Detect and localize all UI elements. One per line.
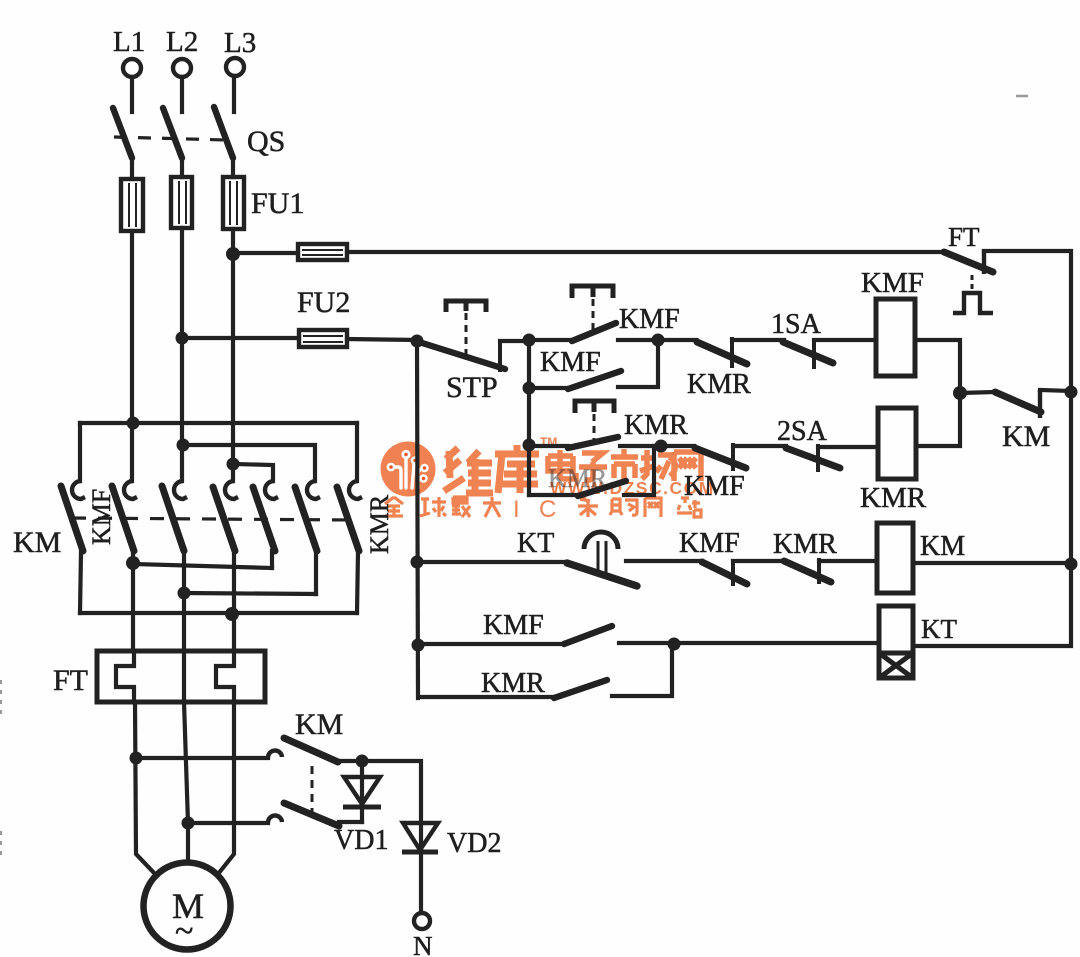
svg-text:KMF: KMF [619,304,680,335]
svg-text:KMR: KMR [860,482,927,514]
svg-text:KM: KM [1002,420,1050,453]
svg-text:FU2: FU2 [297,286,350,319]
svg-text:KMF: KMF [861,267,924,299]
svg-text:I: I [513,496,520,523]
svg-text:1SA: 1SA [771,309,822,340]
svg-text:KMF: KMF [87,489,116,545]
svg-text:KMR: KMR [624,410,688,441]
svg-text:FT: FT [53,664,88,697]
svg-text:L1: L1 [113,26,145,58]
svg-text:KMR: KMR [481,668,545,699]
svg-text:N: N [413,931,433,957]
svg-text:KMR: KMR [773,529,837,560]
svg-text:KT: KT [517,528,554,559]
svg-text:KMR: KMR [548,464,608,493]
svg-text:VD2: VD2 [447,828,501,859]
svg-text:STP: STP [446,371,498,404]
svg-text:L2: L2 [166,26,198,58]
svg-text:C: C [539,496,556,523]
svg-text:QS: QS [247,125,285,158]
svg-text:KMR: KMR [365,494,394,554]
svg-text:KMF: KMF [540,347,601,378]
svg-text:FU1: FU1 [251,187,304,220]
svg-text:KMF: KMF [684,471,745,502]
svg-text:KM: KM [13,526,61,559]
svg-text:2SA: 2SA [777,416,828,447]
svg-text:KM: KM [295,708,343,741]
svg-text:KMF: KMF [483,610,544,641]
svg-text:KMR: KMR [687,369,751,400]
svg-text:L3: L3 [224,27,256,59]
svg-text:FT: FT [948,222,980,252]
svg-text:~: ~ [175,913,193,950]
svg-text:KT: KT [921,614,957,644]
svg-text:VD1: VD1 [334,825,388,856]
svg-text:KM: KM [920,531,965,562]
svg-text:KMF: KMF [679,528,740,559]
